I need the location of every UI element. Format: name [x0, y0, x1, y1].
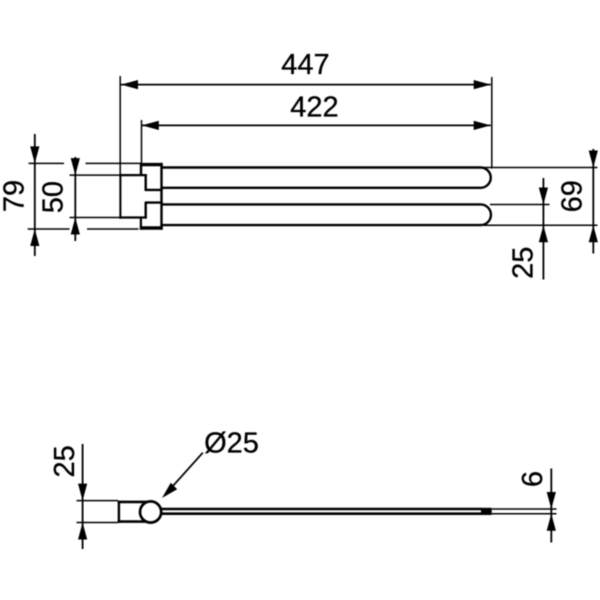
svg-text:447: 447 — [281, 49, 329, 81]
svg-text:69: 69 — [556, 180, 588, 212]
svg-text:Ø25: Ø25 — [204, 427, 259, 459]
svg-text:25: 25 — [49, 445, 81, 477]
svg-text:422: 422 — [290, 92, 338, 124]
svg-text:50: 50 — [37, 181, 69, 213]
svg-text:25: 25 — [507, 247, 539, 279]
svg-text:79: 79 — [0, 180, 31, 212]
svg-text:6: 6 — [517, 471, 549, 487]
